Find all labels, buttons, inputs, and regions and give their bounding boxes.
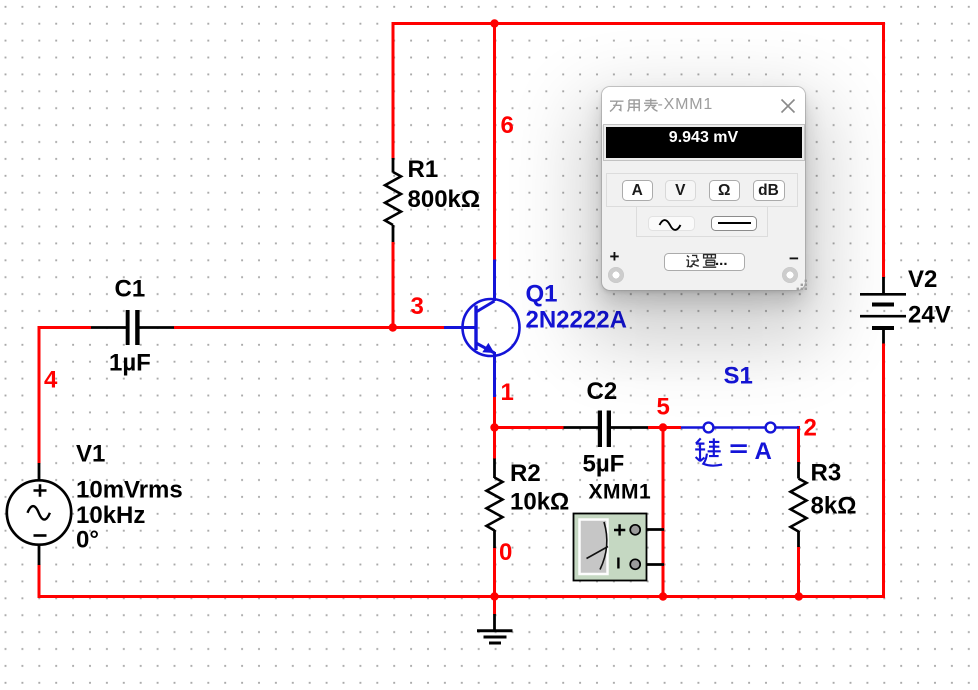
svg-text:1: 1: [501, 379, 514, 406]
svg-text:S1: S1: [724, 363, 753, 390]
svg-text:C2: C2: [587, 378, 618, 405]
svg-text:2N2222A: 2N2222A: [526, 307, 627, 334]
svg-text:5: 5: [657, 394, 670, 421]
svg-text:Q1: Q1: [526, 281, 558, 308]
svg-text:R3: R3: [811, 460, 842, 487]
svg-text:10kΩ: 10kΩ: [510, 489, 569, 516]
svg-text:8kΩ: 8kΩ: [811, 493, 857, 520]
svg-text:10kHz: 10kHz: [76, 502, 145, 529]
svg-text:0: 0: [499, 539, 512, 566]
svg-text:0°: 0°: [76, 527, 99, 554]
svg-text:2: 2: [804, 415, 817, 442]
svg-text:24V: 24V: [908, 302, 951, 329]
svg-text:4: 4: [44, 367, 58, 394]
svg-text:XMM1: XMM1: [589, 480, 652, 503]
svg-text:1µF: 1µF: [109, 350, 151, 377]
svg-text:A: A: [755, 438, 772, 465]
svg-text:C1: C1: [115, 276, 146, 303]
svg-text:6: 6: [501, 112, 514, 139]
svg-text:3: 3: [411, 293, 424, 320]
svg-text:V1: V1: [76, 441, 105, 468]
svg-text:R1: R1: [408, 156, 439, 183]
svg-text:800kΩ: 800kΩ: [408, 186, 481, 213]
svg-text:10mVrms: 10mVrms: [76, 477, 183, 504]
svg-text:V2: V2: [908, 266, 937, 293]
svg-text:R2: R2: [510, 460, 541, 487]
svg-text:5µF: 5µF: [583, 451, 625, 478]
